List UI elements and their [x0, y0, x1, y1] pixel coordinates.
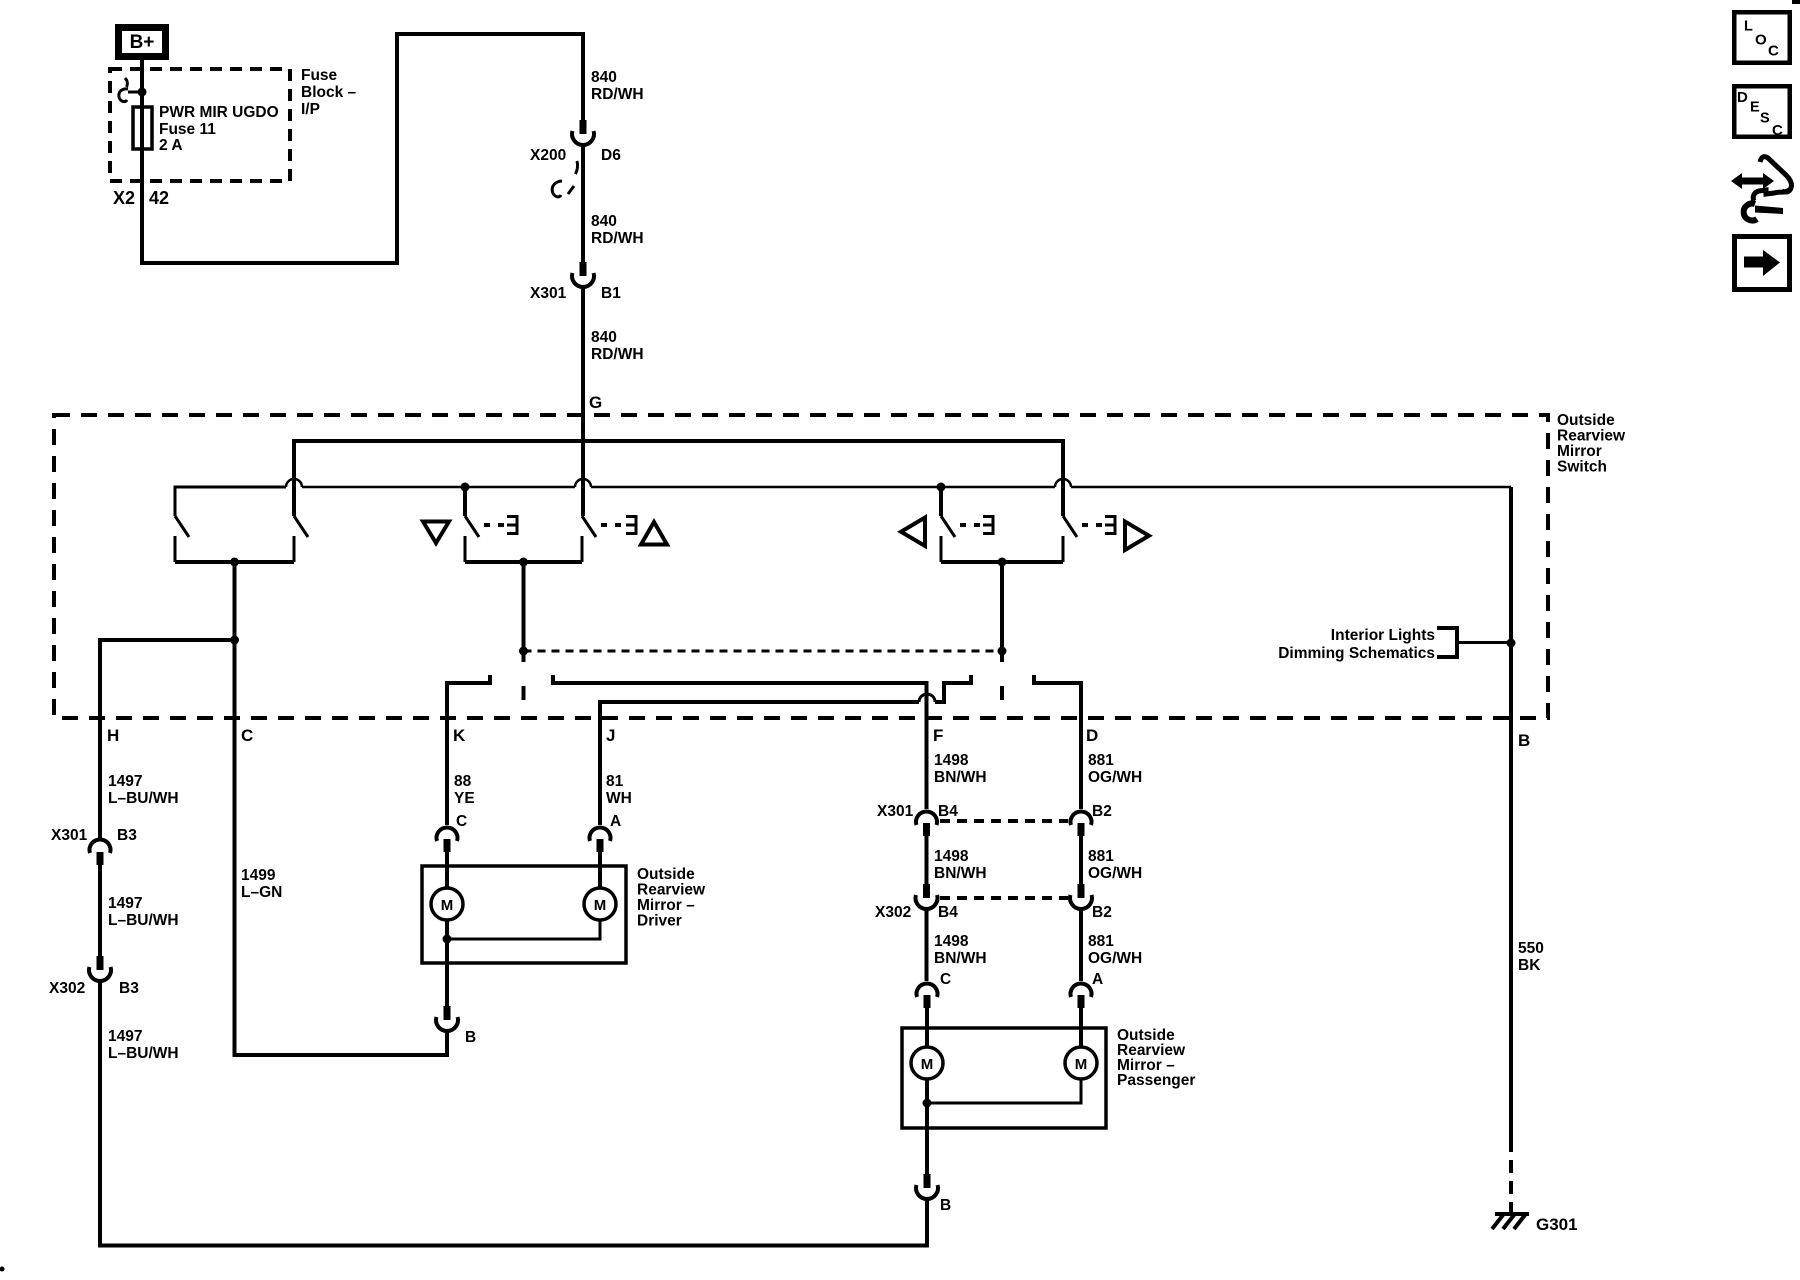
svg-text:1498: 1498: [934, 752, 969, 769]
svg-text:YE: YE: [454, 790, 475, 807]
svg-text:Switch: Switch: [1557, 459, 1607, 476]
svg-text:K: K: [453, 726, 466, 745]
svg-text:Mirror: Mirror: [1557, 443, 1602, 460]
svg-text:1499: 1499: [241, 867, 276, 884]
svg-text:Outside: Outside: [637, 866, 695, 883]
svg-text:BN/WH: BN/WH: [934, 950, 987, 967]
svg-text:1497: 1497: [108, 895, 142, 912]
svg-text:OG/WH: OG/WH: [1088, 950, 1142, 967]
svg-text:Fuse 11: Fuse 11: [159, 121, 216, 138]
svg-text:840: 840: [591, 329, 617, 346]
svg-text:Rearview: Rearview: [637, 882, 706, 899]
svg-text:2 A: 2 A: [159, 137, 183, 154]
svg-text:B4: B4: [938, 904, 958, 921]
svg-text:B: B: [940, 1197, 951, 1214]
svg-text:H: H: [107, 726, 119, 745]
svg-text:X301: X301: [530, 285, 567, 302]
svg-text:B2: B2: [1092, 904, 1112, 921]
svg-text:L–BU/WH: L–BU/WH: [108, 1045, 179, 1062]
svg-text:RD/WH: RD/WH: [591, 86, 644, 103]
svg-text:Outside: Outside: [1557, 412, 1615, 429]
svg-text:840: 840: [591, 69, 617, 86]
svg-text:B3: B3: [119, 980, 139, 997]
svg-text:M: M: [441, 897, 454, 914]
svg-text:C: C: [456, 813, 467, 830]
svg-text:B3: B3: [117, 827, 137, 844]
svg-text:42: 42: [149, 188, 169, 208]
svg-text:Mirror –: Mirror –: [637, 897, 695, 914]
svg-text:OG/WH: OG/WH: [1088, 865, 1142, 882]
svg-text:S: S: [1760, 111, 1770, 127]
svg-text:PWR MIR UGDO: PWR MIR UGDO: [159, 104, 279, 121]
svg-text:81: 81: [606, 773, 624, 790]
svg-text:M: M: [1075, 1056, 1088, 1073]
svg-text:88: 88: [454, 773, 472, 790]
svg-text:X2: X2: [113, 188, 135, 208]
svg-text:550: 550: [1518, 940, 1544, 957]
svg-text:M: M: [594, 897, 607, 914]
svg-text:1497: 1497: [108, 773, 142, 790]
svg-text:Interior Lights: Interior Lights: [1331, 627, 1435, 644]
svg-text:A: A: [610, 813, 621, 830]
svg-text:X301: X301: [877, 803, 914, 820]
svg-text:B: B: [1518, 731, 1530, 750]
svg-text:C: C: [940, 971, 951, 988]
svg-text:L–GN: L–GN: [241, 884, 282, 901]
svg-text:L–BU/WH: L–BU/WH: [108, 912, 179, 929]
svg-text:1498: 1498: [934, 848, 969, 865]
svg-text:B: B: [465, 1029, 476, 1046]
svg-text:O: O: [1755, 32, 1767, 49]
svg-text:RD/WH: RD/WH: [591, 346, 644, 363]
svg-text:C: C: [1772, 122, 1783, 139]
svg-text:B4: B4: [938, 803, 958, 820]
svg-text:1497: 1497: [108, 1028, 142, 1045]
svg-text:G301: G301: [1536, 1215, 1578, 1234]
svg-text:E: E: [1750, 100, 1760, 116]
svg-text:881: 881: [1088, 752, 1114, 769]
svg-text:881: 881: [1088, 848, 1114, 865]
svg-text:Rearview: Rearview: [1557, 428, 1626, 445]
svg-text:L: L: [1744, 19, 1753, 35]
svg-text:Passenger: Passenger: [1117, 1072, 1195, 1089]
svg-text:BN/WH: BN/WH: [934, 865, 987, 882]
svg-text:M: M: [921, 1056, 934, 1073]
svg-text:D6: D6: [601, 147, 621, 164]
svg-text:881: 881: [1088, 933, 1114, 950]
svg-text:C: C: [241, 726, 253, 745]
svg-text:1498: 1498: [934, 933, 969, 950]
svg-text:F: F: [933, 726, 943, 745]
svg-text:X200: X200: [530, 147, 566, 164]
svg-text:X302: X302: [875, 904, 911, 921]
svg-text:J: J: [606, 726, 615, 745]
svg-text:Driver: Driver: [637, 913, 682, 930]
svg-text:C: C: [1768, 43, 1779, 60]
svg-text:Block –: Block –: [301, 84, 357, 101]
svg-text:D: D: [1086, 726, 1098, 745]
svg-text:Dimming Schematics: Dimming Schematics: [1278, 645, 1435, 662]
svg-text:L–BU/WH: L–BU/WH: [108, 790, 179, 807]
svg-text:840: 840: [591, 213, 617, 230]
svg-text:BK: BK: [1518, 957, 1541, 974]
svg-text:A: A: [1092, 971, 1103, 988]
svg-text:I/P: I/P: [301, 101, 320, 118]
svg-text:X302: X302: [49, 980, 85, 997]
svg-text:X301: X301: [51, 827, 88, 844]
svg-text:B2: B2: [1092, 803, 1112, 820]
svg-text:WH: WH: [606, 790, 632, 807]
svg-text:B1: B1: [601, 285, 621, 302]
svg-text:G: G: [589, 393, 602, 412]
svg-text:B+: B+: [130, 32, 155, 53]
svg-text:BN/WH: BN/WH: [934, 769, 987, 786]
svg-text:OG/WH: OG/WH: [1088, 769, 1142, 786]
svg-text:RD/WH: RD/WH: [591, 230, 644, 247]
svg-text:D: D: [1737, 89, 1748, 106]
svg-text:Fuse: Fuse: [301, 67, 338, 84]
